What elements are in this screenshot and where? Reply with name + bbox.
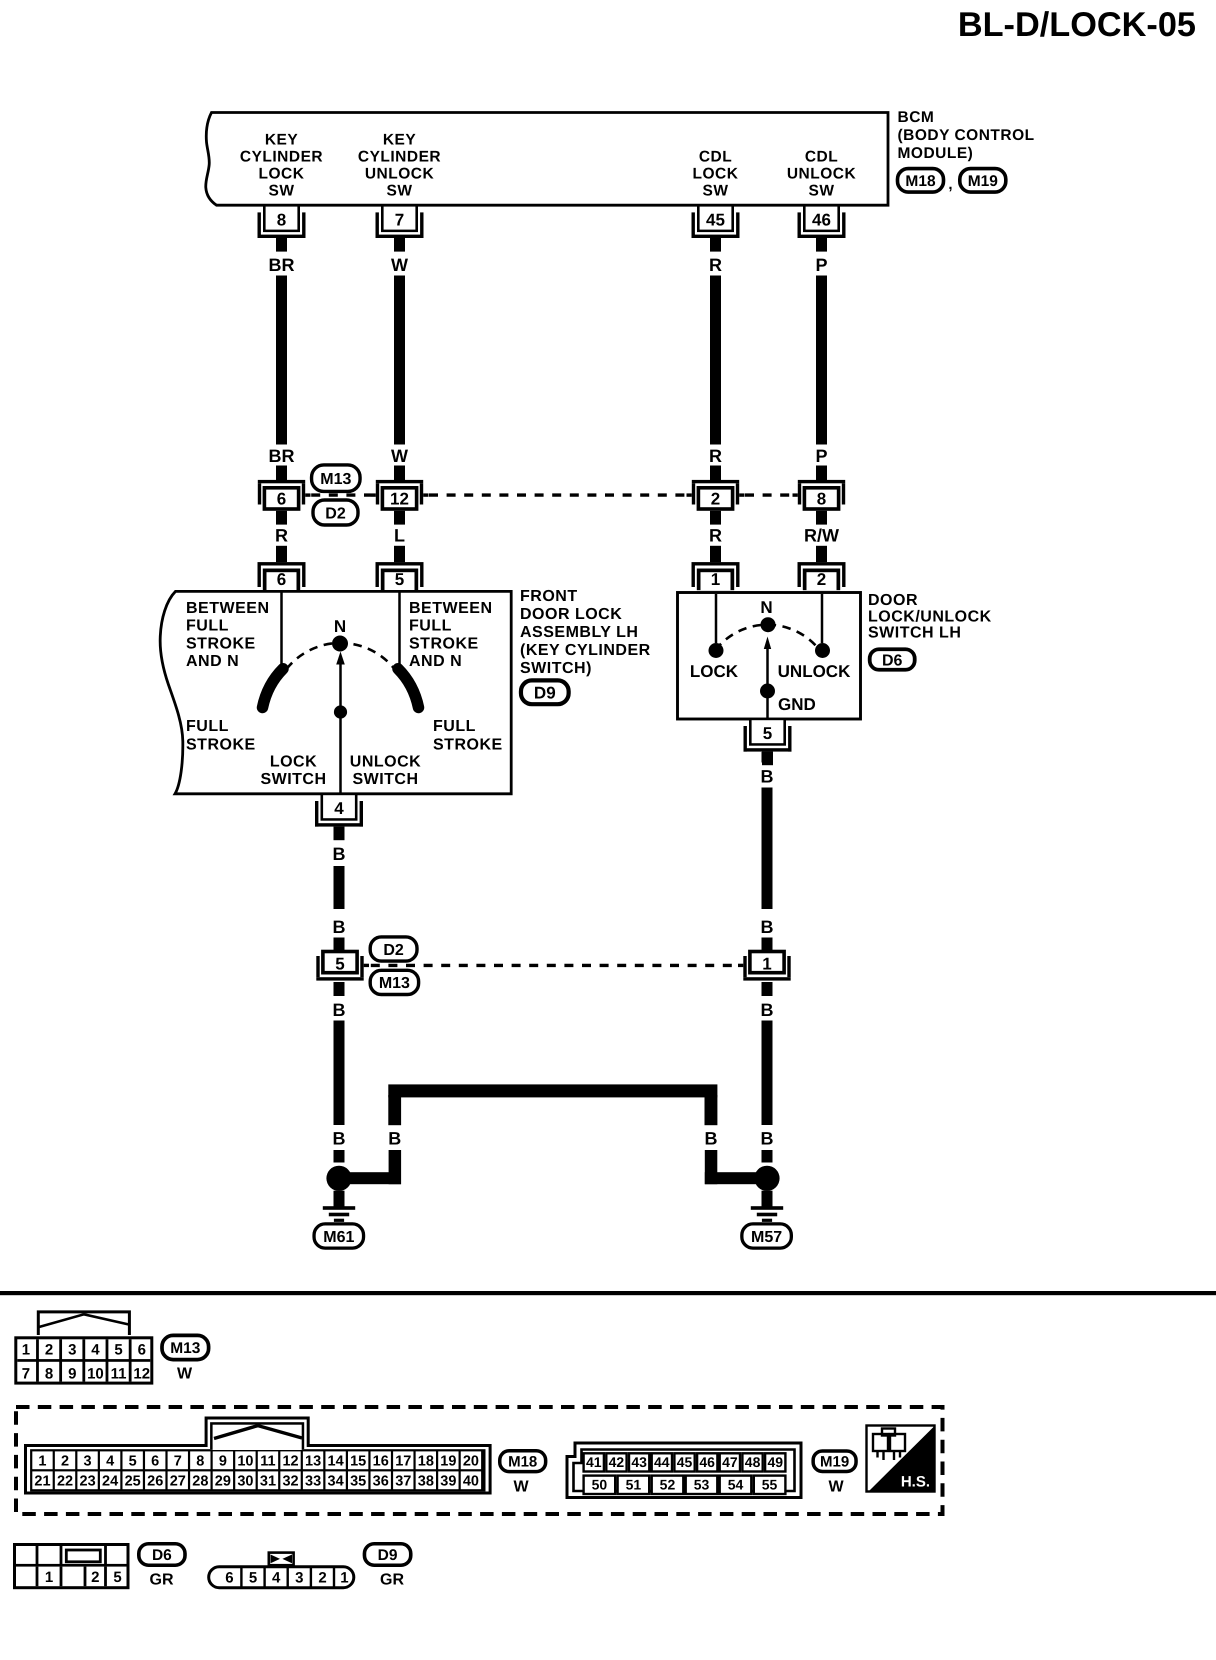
- svg-text:52: 52: [660, 1476, 676, 1492]
- svg-text:9: 9: [68, 1365, 76, 1382]
- svg-text:STROKE: STROKE: [409, 635, 479, 652]
- node N dot (D6): [761, 617, 776, 632]
- dashed link row E: [371, 964, 738, 967]
- wire B left segment 1: [334, 866, 345, 909]
- ground connector M57 oval: [742, 1224, 792, 1248]
- svg-text:LOCK: LOCK: [693, 166, 739, 183]
- svg-text:14: 14: [328, 1454, 344, 1470]
- svg-text:40: 40: [463, 1474, 479, 1490]
- GND line to pin 5 (D6): [766, 691, 769, 720]
- svg-text:23: 23: [80, 1474, 96, 1490]
- wire R below row B: [710, 511, 721, 525]
- wire P short segment: [816, 466, 827, 481]
- inline connector M13/D2 pin 8: [798, 480, 845, 483]
- wire R into lower device: [710, 546, 721, 562]
- svg-text:M18: M18: [508, 1454, 537, 1471]
- ground bus right leg lower: [705, 1150, 718, 1184]
- svg-text:(KEY CYLINDER: (KEY CYLINDER: [520, 642, 651, 659]
- svg-text:10: 10: [237, 1454, 253, 1470]
- svg-text:10: 10: [87, 1365, 104, 1382]
- connector face M19: [567, 1443, 801, 1498]
- svg-text:35: 35: [350, 1474, 366, 1490]
- wire L below row B: [394, 511, 405, 525]
- svg-text:LOCK: LOCK: [690, 662, 739, 681]
- wire BR long segment: [276, 276, 287, 445]
- svg-text:LOCK/UNLOCK: LOCK/UNLOCK: [868, 608, 992, 625]
- svg-text:,: ,: [948, 176, 952, 193]
- svg-text:55: 55: [762, 1476, 778, 1492]
- svg-text:P: P: [815, 446, 827, 466]
- svg-text:GR: GR: [150, 1572, 174, 1589]
- svg-text:8: 8: [277, 211, 286, 230]
- key cylinder unlock-side contact arc (full stroke): [398, 669, 419, 708]
- BCM pin 46: [803, 206, 840, 233]
- svg-text:FULL: FULL: [409, 618, 452, 635]
- svg-text:B: B: [761, 1129, 774, 1149]
- device pin 2 (D6): [798, 562, 846, 565]
- door lock/unlock switch box (D6): [678, 593, 861, 720]
- key cylinder dashed travel arc: [287, 643, 395, 669]
- svg-text:5: 5: [395, 570, 404, 589]
- svg-text:SWITCH LH: SWITCH LH: [868, 625, 961, 642]
- svg-text:5: 5: [129, 1454, 137, 1470]
- svg-text:H.S.: H.S.: [901, 1474, 930, 1491]
- svg-text:M57: M57: [751, 1229, 782, 1246]
- svg-text:5: 5: [763, 724, 772, 743]
- svg-text:D9: D9: [534, 683, 556, 702]
- connector M19 oval (face): [813, 1451, 856, 1472]
- device pin 6 (D9): [258, 562, 306, 565]
- wire B right segment 3: [762, 1021, 773, 1126]
- svg-text:8: 8: [196, 1454, 204, 1470]
- svg-text:W: W: [513, 1479, 529, 1496]
- wire R long segment: [710, 276, 721, 445]
- svg-text:SW: SW: [809, 183, 835, 200]
- svg-text:LOCK: LOCK: [259, 166, 305, 183]
- connector M13 oval (row E): [370, 970, 418, 994]
- svg-text:FULL: FULL: [186, 718, 229, 735]
- svg-text:DOOR: DOOR: [868, 592, 918, 609]
- svg-text:4: 4: [91, 1342, 100, 1359]
- BCM pin 8: [263, 206, 300, 233]
- svg-text:UNLOCK: UNLOCK: [365, 166, 435, 183]
- svg-text:2: 2: [711, 489, 720, 508]
- GND dot (D6): [760, 684, 775, 699]
- svg-text:27: 27: [170, 1474, 186, 1490]
- svg-text:SWITCH: SWITCH: [260, 771, 326, 788]
- svg-text:1: 1: [340, 1570, 348, 1587]
- svg-text:CYLINDER: CYLINDER: [240, 149, 323, 166]
- svg-text:STROKE: STROKE: [433, 736, 503, 753]
- connector face D9: [209, 1553, 354, 1588]
- svg-text:UNLOCK: UNLOCK: [350, 754, 421, 771]
- ground bus left leg upper: [388, 1095, 401, 1125]
- svg-text:1: 1: [22, 1342, 30, 1359]
- svg-text:1: 1: [38, 1454, 46, 1470]
- svg-text:5: 5: [335, 954, 344, 973]
- svg-text:B: B: [761, 767, 774, 787]
- svg-text:FULL: FULL: [433, 718, 476, 735]
- svg-text:1: 1: [711, 570, 720, 589]
- connector M18 oval (BCM): [898, 169, 944, 193]
- inline connector D2/M13 pin 5: [316, 977, 363, 980]
- wire B right segment 2: [762, 938, 773, 951]
- svg-text:AND N: AND N: [409, 653, 462, 670]
- svg-text:41: 41: [586, 1454, 602, 1470]
- svg-text:2: 2: [61, 1454, 69, 1470]
- switch dashed travel arc (D6): [715, 625, 819, 650]
- svg-text:R: R: [709, 526, 722, 546]
- svg-text:46: 46: [812, 211, 831, 230]
- svg-text:R/W: R/W: [804, 526, 839, 546]
- LOCK contact dot: [709, 643, 724, 658]
- connector face M18: [24, 1417, 492, 1495]
- svg-text:7: 7: [395, 211, 404, 230]
- dashed link row B segment 1: [311, 493, 370, 496]
- switch line from pin 2: [821, 594, 824, 643]
- connector D9 oval (face): [364, 1544, 410, 1566]
- svg-text:MODULE): MODULE): [898, 145, 974, 162]
- svg-text:5: 5: [249, 1570, 257, 1587]
- svg-text:SWITCH: SWITCH: [352, 771, 418, 788]
- svg-text:24: 24: [102, 1474, 118, 1490]
- svg-text:B: B: [388, 1129, 401, 1149]
- svg-text:M18: M18: [905, 173, 936, 190]
- device pin 5 (D9): [376, 562, 424, 565]
- svg-text:38: 38: [418, 1474, 434, 1490]
- svg-text:SW: SW: [269, 183, 295, 200]
- svg-text:50: 50: [592, 1476, 608, 1492]
- connector M19 oval (BCM): [960, 169, 1006, 193]
- svg-text:53: 53: [694, 1476, 710, 1492]
- svg-text:AND N: AND N: [186, 653, 239, 670]
- svg-text:8: 8: [817, 489, 826, 508]
- key cylinder pivot dot: [334, 705, 347, 718]
- svg-text:B: B: [761, 1000, 774, 1020]
- switch wiper arrow (D6): [766, 648, 769, 691]
- connector D2 oval (row B): [313, 500, 358, 525]
- svg-text:2: 2: [817, 570, 826, 589]
- svg-text:21: 21: [34, 1474, 50, 1490]
- svg-text:47: 47: [722, 1454, 738, 1470]
- svg-text:B: B: [333, 1129, 346, 1149]
- svg-text:R: R: [709, 255, 722, 275]
- svg-text:5: 5: [113, 1569, 121, 1586]
- svg-text:SWITCH): SWITCH): [520, 660, 592, 677]
- svg-text:N: N: [760, 598, 772, 617]
- connector D9 oval: [521, 680, 569, 704]
- key cylinder switch line from pin 5: [398, 592, 401, 671]
- svg-text:KEY: KEY: [383, 132, 417, 149]
- svg-text:M19: M19: [820, 1454, 849, 1471]
- switch line from pin 1: [715, 594, 718, 643]
- svg-text:51: 51: [626, 1476, 642, 1492]
- separator line: [0, 1291, 1216, 1295]
- svg-text:CYLINDER: CYLINDER: [358, 149, 441, 166]
- svg-text:W: W: [391, 255, 408, 275]
- BCM pin 45: [697, 206, 734, 233]
- dashed link row B segment 3: [745, 493, 792, 496]
- svg-text:W: W: [391, 446, 408, 466]
- dashed link row B segment 2: [429, 493, 686, 496]
- svg-text:B: B: [705, 1129, 718, 1149]
- wire W short segment: [394, 466, 405, 481]
- svg-text:54: 54: [728, 1476, 744, 1492]
- svg-text:11: 11: [260, 1454, 275, 1470]
- wire B left segment 3: [334, 1021, 345, 1126]
- svg-text:11: 11: [111, 1365, 127, 1382]
- device pin 5 (D6): [749, 719, 786, 746]
- svg-text:49: 49: [767, 1454, 783, 1470]
- wire B right stub under pin 5: [762, 752, 773, 763]
- svg-text:3: 3: [84, 1454, 92, 1470]
- svg-text:B: B: [333, 917, 346, 937]
- key cylinder lock-side contact arc (full stroke): [263, 669, 284, 708]
- svg-text:BCM: BCM: [898, 109, 935, 126]
- svg-text:31: 31: [260, 1474, 276, 1490]
- svg-text:M19: M19: [968, 173, 999, 190]
- inline connector D2/M13 pin 1: [743, 977, 790, 980]
- svg-text:20: 20: [463, 1454, 479, 1470]
- svg-text:L: L: [394, 526, 405, 546]
- svg-text:48: 48: [745, 1454, 761, 1470]
- inline connector M13/D2 pin 6: [258, 480, 305, 483]
- svg-text:8: 8: [45, 1365, 53, 1382]
- svg-text:R: R: [275, 526, 288, 546]
- svg-text:17: 17: [395, 1454, 411, 1470]
- svg-text:6: 6: [138, 1342, 146, 1359]
- svg-text:26: 26: [147, 1474, 163, 1490]
- svg-text:30: 30: [237, 1474, 253, 1490]
- svg-text:N: N: [334, 617, 346, 636]
- key cylinder switch line from pin 6: [280, 592, 283, 669]
- device pin 4 (D9): [321, 794, 358, 821]
- ground bus left stub to junction: [349, 1172, 401, 1184]
- svg-text:M13: M13: [170, 1340, 201, 1357]
- ground junction dot (M61): [326, 1166, 351, 1191]
- svg-text:1: 1: [45, 1569, 53, 1586]
- wire B stub below connector 5: [334, 982, 345, 996]
- node N contact dot (key cylinder): [332, 636, 348, 652]
- svg-text:UNLOCK: UNLOCK: [778, 662, 851, 681]
- svg-text:LOCK: LOCK: [270, 754, 317, 771]
- wire B right final stub: [762, 1150, 773, 1163]
- wire W long segment: [394, 276, 405, 445]
- svg-text:M13: M13: [320, 471, 351, 488]
- svg-text:15: 15: [350, 1454, 366, 1470]
- svg-text:7: 7: [174, 1454, 182, 1470]
- wire P long segment: [816, 276, 827, 445]
- svg-text:19: 19: [440, 1454, 456, 1470]
- svg-text:3: 3: [68, 1342, 76, 1359]
- svg-text:4: 4: [106, 1454, 114, 1470]
- BCM module box: [206, 113, 888, 206]
- svg-text:16: 16: [373, 1454, 389, 1470]
- key cylinder common line to pin 4: [339, 712, 342, 793]
- svg-text:ASSEMBLY LH: ASSEMBLY LH: [520, 624, 638, 641]
- connector D6 oval: [870, 649, 915, 670]
- ground bus left leg lower: [389, 1150, 402, 1184]
- svg-text:12: 12: [390, 489, 409, 508]
- ground symbol M61: [334, 1191, 345, 1207]
- svg-text:UNLOCK: UNLOCK: [787, 166, 857, 183]
- svg-text:7: 7: [22, 1365, 30, 1382]
- svg-text:1: 1: [762, 954, 771, 973]
- svg-text:FRONT: FRONT: [520, 588, 578, 605]
- front door lock assembly box (D9): [160, 591, 511, 793]
- svg-text:D6: D6: [882, 652, 903, 669]
- connector D6 oval (face): [139, 1544, 185, 1566]
- wire R short segment: [710, 466, 721, 481]
- wire B left segment 2: [334, 938, 345, 951]
- svg-text:M13: M13: [379, 975, 410, 992]
- svg-text:FULL: FULL: [186, 618, 229, 635]
- BCM pin 7: [381, 206, 418, 233]
- svg-text:32: 32: [282, 1474, 298, 1490]
- svg-text:29: 29: [215, 1474, 231, 1490]
- svg-text:(BODY CONTROL: (BODY CONTROL: [898, 127, 1035, 144]
- harness group dashed box: [16, 1407, 943, 1514]
- svg-text:SW: SW: [387, 183, 413, 200]
- svg-text:18: 18: [418, 1454, 434, 1470]
- svg-text:9: 9: [219, 1454, 227, 1470]
- svg-text:STROKE: STROKE: [186, 635, 256, 652]
- svg-text:STROKE: STROKE: [186, 736, 256, 753]
- svg-text:43: 43: [631, 1454, 647, 1470]
- ground bus horizontal: [388, 1084, 717, 1097]
- svg-text:37: 37: [395, 1474, 411, 1490]
- svg-text:CDL: CDL: [699, 149, 732, 166]
- svg-text:6: 6: [277, 489, 286, 508]
- svg-text:D2: D2: [325, 505, 346, 522]
- svg-text:4: 4: [334, 799, 344, 818]
- connector M18 oval (face): [500, 1451, 546, 1472]
- svg-text:BETWEEN: BETWEEN: [409, 600, 493, 617]
- H.S. hand symbol logo: [867, 1426, 935, 1492]
- svg-text:BETWEEN: BETWEEN: [186, 600, 270, 617]
- svg-text:D6: D6: [152, 1547, 172, 1564]
- svg-text:6: 6: [225, 1570, 233, 1587]
- svg-text:34: 34: [328, 1474, 344, 1490]
- svg-text:44: 44: [654, 1454, 670, 1470]
- svg-text:CDL: CDL: [805, 149, 838, 166]
- wire B stub below connector 1: [762, 982, 773, 996]
- svg-text:36: 36: [373, 1474, 389, 1490]
- svg-text:W: W: [177, 1366, 193, 1383]
- svg-text:13: 13: [305, 1454, 321, 1470]
- svg-text:BR: BR: [269, 446, 295, 466]
- svg-text:42: 42: [609, 1454, 625, 1470]
- inline connector M13/D2 pin 2: [692, 480, 739, 483]
- svg-text:B: B: [761, 917, 774, 937]
- ground symbol M57: [762, 1191, 773, 1207]
- svg-text:45: 45: [706, 211, 725, 230]
- svg-text:25: 25: [125, 1474, 141, 1490]
- connector face D6: [13, 1543, 130, 1589]
- ground bus right stub to junction: [705, 1172, 757, 1184]
- svg-text:BL-D/LOCK-05: BL-D/LOCK-05: [958, 6, 1196, 44]
- svg-text:W: W: [828, 1479, 844, 1496]
- svg-text:R: R: [709, 446, 722, 466]
- wire R/W into lower device: [816, 546, 827, 562]
- svg-text:12: 12: [133, 1365, 150, 1382]
- ground junction dot (M57): [754, 1166, 779, 1191]
- inline connector M13/D2 pin 12: [376, 480, 423, 483]
- wire R/W below row B: [816, 511, 827, 525]
- wire L into lower device: [394, 546, 405, 562]
- svg-text:M61: M61: [323, 1229, 354, 1246]
- wire R below row B: [276, 511, 287, 525]
- svg-text:46: 46: [699, 1454, 715, 1470]
- svg-text:P: P: [815, 255, 827, 275]
- connector face M13: [14, 1312, 153, 1385]
- svg-text:2: 2: [91, 1569, 99, 1586]
- svg-text:28: 28: [192, 1474, 208, 1490]
- svg-text:B: B: [333, 1000, 346, 1020]
- svg-text:B: B: [333, 844, 346, 864]
- ground connector M61 oval: [314, 1224, 364, 1248]
- svg-text:2: 2: [45, 1342, 53, 1359]
- connector D2 oval (row E): [370, 937, 417, 961]
- connector M13 oval (face): [162, 1335, 209, 1359]
- svg-text:3: 3: [295, 1570, 303, 1587]
- svg-text:4: 4: [272, 1570, 281, 1587]
- svg-text:KEY: KEY: [265, 132, 299, 149]
- svg-text:33: 33: [305, 1474, 321, 1490]
- svg-text:39: 39: [440, 1474, 456, 1490]
- svg-text:D2: D2: [383, 942, 404, 959]
- svg-text:D9: D9: [378, 1547, 398, 1564]
- svg-text:45: 45: [677, 1454, 693, 1470]
- connector M13 oval (row B): [312, 465, 361, 492]
- svg-text:SW: SW: [703, 183, 729, 200]
- svg-text:GR: GR: [380, 1572, 404, 1589]
- UNLOCK contact dot: [815, 643, 830, 658]
- wire R into lower device: [276, 546, 287, 562]
- device pin 1 (D6): [692, 562, 740, 565]
- svg-text:GND: GND: [778, 695, 816, 714]
- svg-text:DOOR LOCK: DOOR LOCK: [520, 606, 622, 623]
- svg-text:12: 12: [282, 1454, 298, 1470]
- ground bus right leg upper: [705, 1095, 718, 1125]
- key cylinder wiper arrow: [339, 662, 342, 712]
- svg-text:22: 22: [57, 1474, 73, 1490]
- svg-text:BR: BR: [269, 255, 295, 275]
- svg-text:2: 2: [318, 1570, 326, 1587]
- wire B right segment 1: [762, 788, 773, 910]
- wire B left final stub: [334, 1150, 345, 1163]
- wire BR short segment: [276, 466, 287, 481]
- svg-text:6: 6: [277, 570, 286, 589]
- svg-text:6: 6: [151, 1454, 159, 1470]
- svg-text:5: 5: [114, 1342, 122, 1359]
